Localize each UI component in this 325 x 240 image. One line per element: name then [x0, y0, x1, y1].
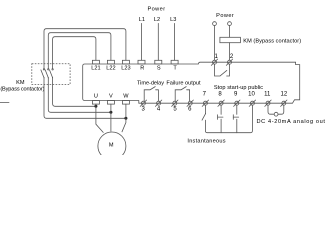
wire W to motor	[122, 104, 126, 132]
coil KM (bypass contactor coil)	[220, 37, 241, 42]
switch instantaneous stop under 7	[202, 105, 206, 120]
pushbutton start under 8	[218, 105, 223, 133]
terminal L21	[91, 60, 100, 71]
wire V to motor	[110, 104, 112, 131]
wire L1 to R	[141, 23, 143, 60]
svg-text:W: W	[123, 93, 129, 99]
node power terminal A	[213, 22, 217, 26]
wire KM coil to terminal 2	[229, 43, 231, 61]
svg-text:L1: L1	[139, 17, 145, 23]
terminal 12	[281, 92, 288, 107]
wire L2 to S	[157, 23, 159, 60]
terminal W	[122, 93, 129, 104]
svg-text:T: T	[173, 66, 177, 72]
svg-text:Stop start-up public: Stop start-up public	[214, 85, 263, 91]
terminal 11	[264, 92, 271, 107]
svg-text:L3: L3	[170, 17, 176, 23]
junction dot U	[94, 105, 97, 108]
wire stub left edge	[0, 102, 9, 104]
terminal 2	[226, 54, 234, 65]
meter on analog output	[274, 112, 278, 116]
svg-text:L2: L2	[154, 17, 160, 23]
contactor pole A contact	[41, 64, 45, 85]
svg-text:KM: KM	[16, 80, 25, 86]
wire analog output loop 11-12	[268, 105, 284, 114]
svg-text:Time-delay: Time-delay	[137, 80, 164, 86]
terminal T	[171, 60, 178, 71]
svg-text:10: 10	[248, 92, 255, 98]
terminal 4	[155, 100, 161, 113]
contact KM auxiliary between 1 and 2	[215, 64, 230, 76]
svg-text:(Bypass contactor): (Bypass contactor)	[0, 87, 44, 93]
svg-text:KM (Bypass contactor): KM (Bypass contactor)	[243, 38, 301, 44]
terminal 3	[140, 100, 146, 113]
contact failure output 5-6	[175, 87, 189, 101]
contactor KM dashed box	[32, 64, 70, 85]
terminal L22	[106, 60, 115, 71]
terminal 7	[202, 92, 208, 107]
terminal U	[92, 93, 99, 104]
terminal R	[138, 60, 145, 71]
svg-text:Failure output: Failure output	[166, 80, 201, 86]
contact time-delay output 3-4	[144, 87, 158, 101]
terminal S	[155, 60, 162, 71]
svg-text:11: 11	[264, 92, 271, 98]
svg-text:U: U	[94, 93, 98, 99]
svg-text:M: M	[109, 142, 114, 148]
terminal V	[107, 93, 114, 104]
wire common rail 7-10	[205, 105, 252, 133]
contactor pole B contact	[45, 64, 49, 85]
wire contactor pole A to W	[44, 85, 126, 119]
wire contactor pole C to U	[53, 85, 96, 107]
motor M	[98, 132, 126, 160]
terminal L23	[121, 60, 130, 71]
wire L3 to T	[174, 23, 176, 60]
svg-text:L23: L23	[121, 66, 130, 72]
contactor pole C contact	[50, 64, 54, 85]
wire contactor pole B to V	[48, 85, 111, 113]
svg-text:Power: Power	[216, 13, 234, 19]
svg-text:DC 4-20mA analog output: DC 4-20mA analog output	[257, 119, 325, 125]
svg-text:L22: L22	[106, 66, 115, 72]
svg-text:Power: Power	[147, 7, 165, 13]
terminal 10	[248, 92, 255, 107]
junction dot V	[109, 111, 112, 114]
wire L23 to contactor pole A	[44, 29, 126, 64]
svg-text:L21: L21	[91, 66, 100, 72]
wire U to motor	[96, 104, 103, 132]
terminal 9	[234, 92, 240, 107]
terminal 6	[187, 100, 193, 113]
wire L21 to contactor pole C	[53, 37, 96, 64]
svg-text:12: 12	[281, 92, 288, 98]
svg-text:V: V	[109, 93, 113, 99]
wire power A to terminal 1	[214, 26, 216, 61]
wire power B to KM coil	[229, 26, 231, 38]
svg-text:Instantaneous: Instantaneous	[187, 138, 225, 144]
terminal 1	[211, 54, 218, 65]
soft starter main box outline	[83, 62, 300, 103]
node power terminal B	[228, 22, 232, 26]
svg-text:S: S	[157, 66, 161, 72]
terminal 5	[172, 100, 178, 113]
pushbutton under 9	[233, 105, 238, 133]
terminal 8	[218, 92, 224, 107]
svg-text:R: R	[140, 66, 144, 72]
wire L22 to contactor pole B	[48, 33, 111, 64]
junction dot W	[124, 117, 127, 120]
